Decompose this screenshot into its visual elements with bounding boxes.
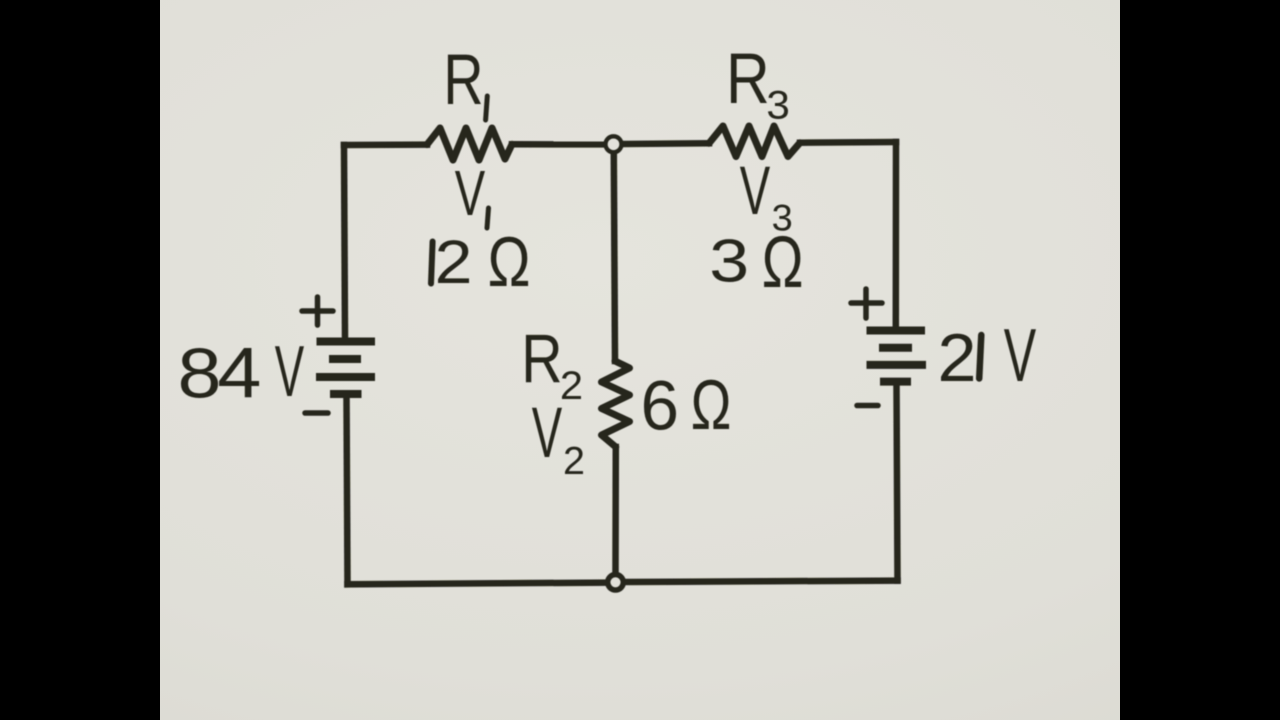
svg-text:3: 3	[766, 83, 789, 127]
svg-text:Ω: Ω	[488, 223, 531, 302]
svg-text:V: V	[1004, 313, 1037, 397]
svg-text:4: 4	[217, 333, 261, 412]
svg-text:2: 2	[938, 320, 977, 395]
svg-text:6: 6	[641, 366, 680, 444]
svg-text:8: 8	[178, 333, 222, 412]
svg-text:2: 2	[563, 440, 585, 483]
svg-text:2: 2	[435, 227, 473, 296]
svg-text:3: 3	[709, 227, 749, 295]
svg-text:R: R	[443, 39, 483, 119]
svg-text:Ω: Ω	[691, 366, 732, 444]
svg-text:R: R	[521, 321, 562, 397]
svg-text:R: R	[726, 39, 770, 119]
svg-text:V: V	[275, 331, 304, 412]
svg-text:Ω: Ω	[762, 221, 804, 303]
svg-text:V: V	[532, 393, 563, 473]
svg-text:2: 2	[560, 363, 583, 408]
svg-text:V: V	[455, 157, 485, 228]
svg-text:V: V	[740, 153, 771, 229]
